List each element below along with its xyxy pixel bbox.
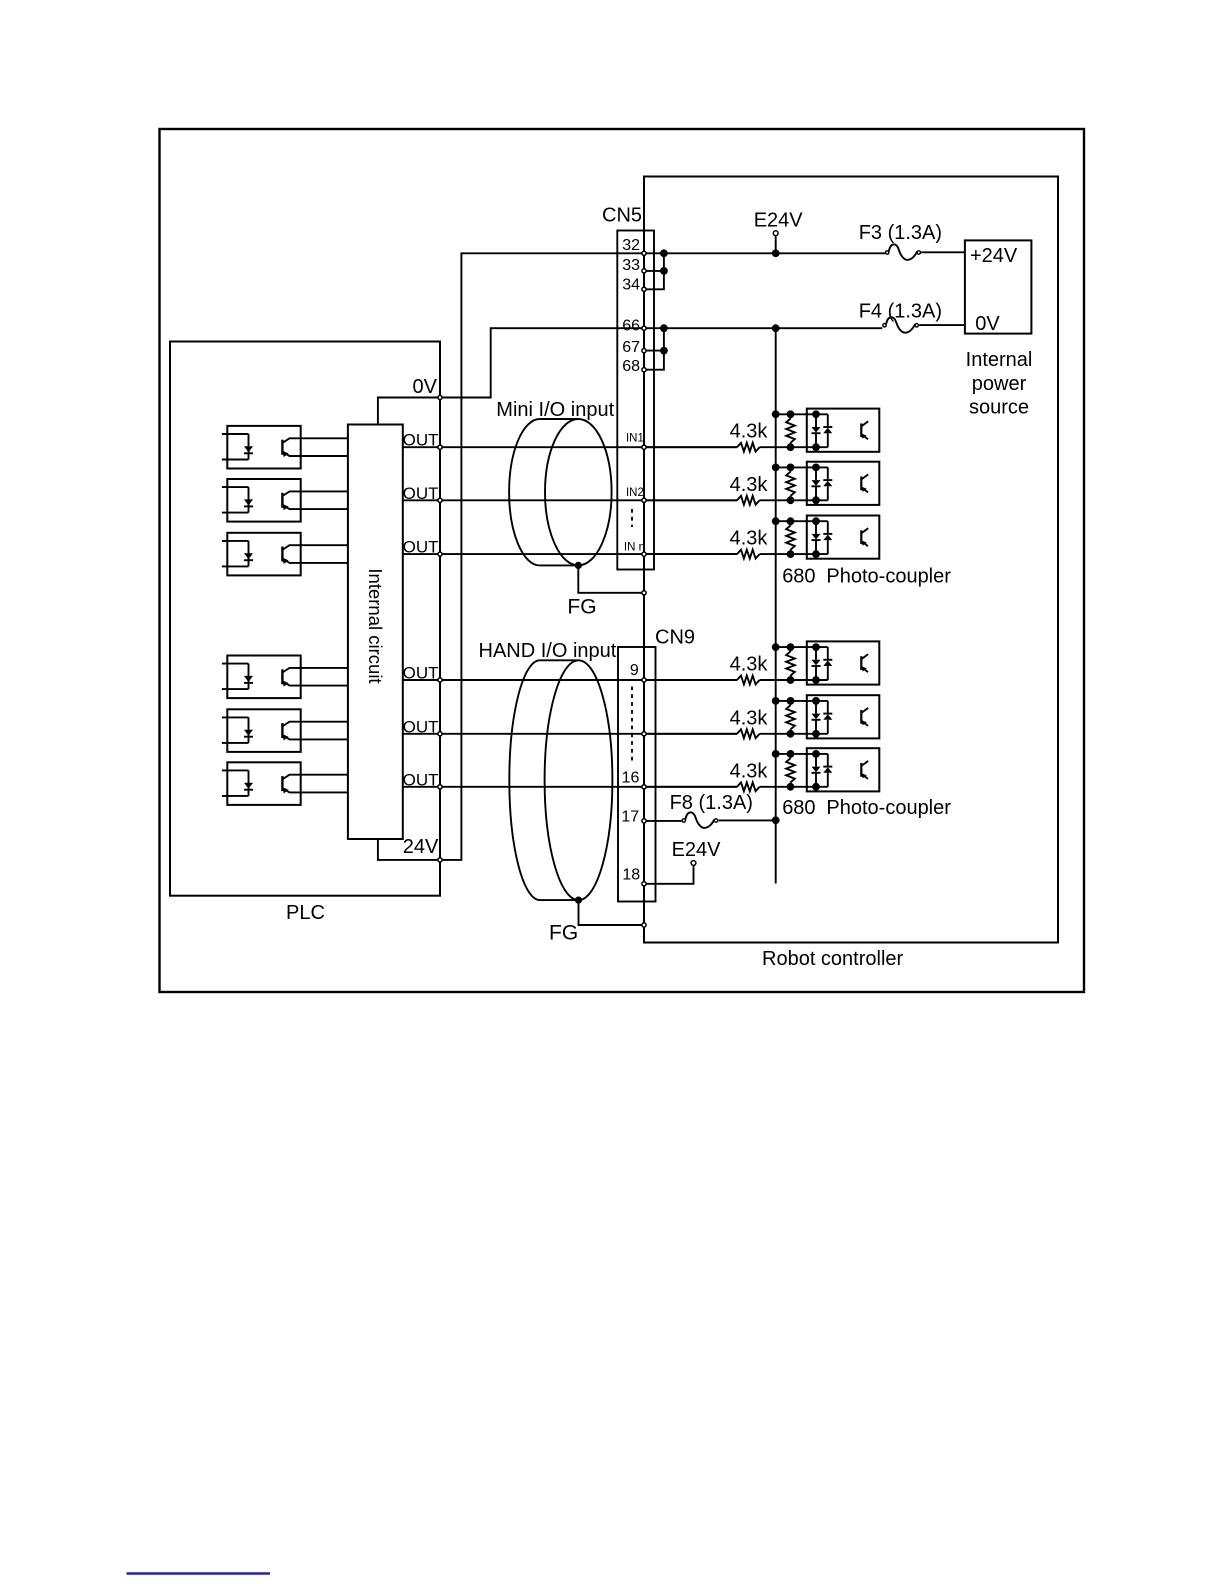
resistor 4.3k row 2 — [644, 474, 828, 505]
photo-coupler PC6 — [807, 748, 880, 791]
svg-text:33: 33 — [622, 257, 640, 274]
node row 3 top line — [772, 517, 828, 525]
svg-text:66: 66 — [622, 318, 640, 335]
wire OUT row 1 (to IN1) — [403, 431, 644, 450]
svg-text:F3 (1.3A): F3 (1.3A) — [859, 222, 942, 244]
photo-coupler PC2 — [807, 462, 880, 505]
resistor 680 row 4 — [786, 647, 795, 684]
CN9 dashed separator — [631, 687, 633, 761]
label 680 Photo-coupler (CN5 group) — [782, 566, 951, 588]
svg-text:4.3k: 4.3k — [730, 707, 769, 729]
svg-text:IN n: IN n — [624, 541, 645, 553]
svg-text:16: 16 — [622, 770, 640, 787]
svg-text:OUT: OUT — [403, 717, 439, 736]
PLC box — [170, 342, 440, 925]
svg-text:source: source — [969, 397, 1029, 419]
FG terminals on robot edge — [642, 591, 646, 927]
svg-text:4.3k: 4.3k — [730, 760, 769, 782]
wire OUT row 2 (to IN2) — [403, 484, 644, 503]
CN5 pin number labels — [622, 237, 645, 554]
FG wire (CN5 shield) — [567, 562, 644, 619]
photo-coupler PC1 — [807, 409, 880, 452]
wire 0V (PLC to CN5 pin 66) — [378, 328, 644, 424]
svg-text:680: 680 — [782, 797, 815, 819]
wire OUT row 3 (to INn) — [403, 538, 644, 557]
CN5 pin terminals — [642, 251, 646, 556]
svg-text:0V: 0V — [413, 376, 438, 398]
wire OUT row 4 (to CN9-9) — [403, 664, 644, 683]
svg-text:F4 (1.3A): F4 (1.3A) — [859, 300, 942, 322]
label 680 Photo-coupler (CN9 group) — [782, 797, 951, 819]
wire 0V line (pin 66 row to F4) — [644, 327, 882, 329]
opto-isolator ISO3 — [222, 533, 348, 576]
FG wire (CN9 shield) — [549, 897, 644, 945]
svg-text:9: 9 — [630, 662, 639, 679]
connector CN5 box — [602, 205, 654, 570]
opto-isolator ISO4 — [222, 656, 348, 699]
resistor 4.3k row 6 — [644, 760, 828, 791]
svg-text:4.3k: 4.3k — [730, 528, 769, 550]
CN9 pin number labels — [621, 662, 640, 884]
svg-text:HAND I/O input: HAND I/O input — [479, 640, 617, 662]
photo-coupler PC3 — [807, 516, 880, 559]
shield HAND I/O input — [479, 640, 617, 900]
svg-text:Photo-coupler: Photo-coupler — [826, 566, 951, 588]
svg-text:OUT: OUT — [403, 770, 439, 789]
wire 24V (PLC to CN5 pin 32) — [378, 253, 644, 860]
svg-text:CN9: CN9 — [655, 627, 695, 649]
resistor 4.3k row 3 — [644, 528, 828, 559]
E24V terminal (top) — [754, 210, 804, 258]
robot controller box — [644, 177, 1058, 971]
wire input row CN9-16 — [644, 786, 737, 788]
resistor 4.3k row 1 — [644, 421, 828, 452]
wire input row IN1 — [644, 446, 737, 448]
svg-text:4.3k: 4.3k — [730, 421, 769, 443]
fuse F4 (1.3A) — [859, 300, 965, 332]
opto-isolator ISO5 — [222, 709, 348, 752]
node row 2 top line — [772, 464, 828, 472]
tie wire pins 33/34 to 32 net — [644, 249, 668, 289]
svg-text:17: 17 — [621, 809, 639, 826]
svg-text:E24V: E24V — [672, 839, 722, 861]
PLC edge terminals — [438, 395, 442, 862]
internal power source box — [965, 240, 1032, 418]
wire +24V line (pin 32 row to F3) — [644, 252, 885, 254]
resistor 680 row 2 — [786, 467, 795, 504]
svg-text:Internal: Internal — [966, 349, 1033, 371]
svg-text:OUT: OUT — [403, 664, 439, 683]
E24V terminal (bottom) — [644, 839, 721, 884]
svg-text:OUT: OUT — [403, 538, 439, 557]
resistor 4.3k row 4 — [644, 654, 828, 685]
svg-text:24V: 24V — [403, 836, 439, 858]
svg-text:FG: FG — [549, 922, 578, 945]
svg-text:68: 68 — [622, 358, 640, 375]
svg-text:IN2: IN2 — [626, 487, 644, 499]
svg-text:Mini I/O input: Mini I/O input — [496, 399, 614, 421]
resistor 680 row 3 — [786, 521, 795, 558]
opto-isolator ISO1 — [222, 426, 348, 469]
svg-text:CN5: CN5 — [602, 205, 642, 227]
svg-text:OUT: OUT — [403, 484, 439, 503]
wire OUT row 6 (to CN9-16) — [403, 770, 644, 789]
photo-coupler PC4 — [807, 641, 880, 684]
opto-isolator ISO2 — [222, 479, 348, 522]
fuse F8 (1.3A) — [644, 792, 780, 828]
wire input row INn — [644, 553, 737, 555]
svg-text:34: 34 — [622, 277, 640, 294]
svg-text:0V: 0V — [975, 313, 1000, 335]
svg-text:Internal circuit: Internal circuit — [365, 568, 386, 683]
node row 4 top line — [772, 643, 828, 651]
svg-text:Robot controller: Robot controller — [762, 948, 904, 970]
svg-text:680: 680 — [782, 566, 815, 588]
wire OUT row 5 (to CN9-mid) — [403, 717, 644, 736]
connector CN9 box — [618, 627, 695, 902]
svg-text:18: 18 — [622, 867, 640, 884]
svg-text:OUT: OUT — [403, 431, 439, 450]
node row 1 top line — [772, 410, 828, 418]
svg-text:Photo-coupler: Photo-coupler — [826, 797, 951, 819]
resistor 680 row 5 — [786, 701, 795, 738]
node row 5 top line — [772, 697, 828, 705]
svg-text:IN1: IN1 — [626, 433, 644, 445]
svg-text:4.3k: 4.3k — [730, 654, 769, 676]
wire input row IN2 — [644, 499, 737, 501]
tie wire pins 67/68 to 66 net — [644, 324, 668, 369]
svg-text:PLC: PLC — [286, 902, 325, 924]
E24V rail — [772, 324, 780, 883]
svg-text:4.3k: 4.3k — [730, 474, 769, 496]
wire input row CN9-9 — [644, 679, 737, 681]
CN9 pin terminals — [642, 678, 646, 886]
svg-text:32: 32 — [622, 237, 640, 254]
CN5 dashed separator — [631, 509, 633, 527]
shield Mini I/O input — [496, 399, 614, 565]
photo-coupler PC5 — [807, 695, 880, 738]
wire input row CN9-mid — [644, 733, 737, 735]
node row 6 top line — [772, 750, 828, 758]
svg-text:67: 67 — [622, 339, 640, 356]
svg-text:F8 (1.3A): F8 (1.3A) — [670, 792, 753, 814]
resistor 680 row 6 — [786, 754, 795, 791]
svg-text:E24V: E24V — [754, 210, 804, 232]
opto-isolator ISO6 — [222, 762, 348, 805]
resistor 4.3k row 5 — [644, 707, 828, 738]
internal circuit box — [348, 425, 403, 840]
svg-text:power: power — [972, 373, 1027, 395]
svg-text:FG: FG — [567, 596, 596, 619]
resistor 680 row 1 — [786, 414, 795, 451]
svg-text:+24V: +24V — [970, 245, 1018, 267]
fuse F3 (1.3A) — [859, 222, 965, 260]
